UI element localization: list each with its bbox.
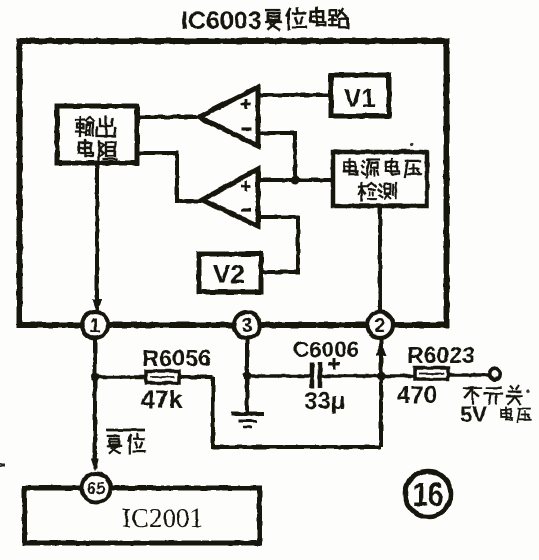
reference V2 <box>199 254 261 292</box>
wire junction2 to R6023 <box>381 374 416 378</box>
junction comp1-minus / comp2-plus <box>291 176 300 185</box>
ground <box>231 414 264 427</box>
svg-text:16: 16 <box>412 475 443 513</box>
svg-text:V1: V1 <box>344 83 376 113</box>
wire pin3 down to ground <box>245 338 249 412</box>
figure number 16 <box>405 471 451 517</box>
label RESET 复位 (active low) <box>106 430 145 453</box>
comparator A1 <box>199 87 258 146</box>
reference V1 <box>331 75 389 116</box>
wire pin2 down through junction2 to bottom rail (with up arrow) <box>376 338 386 447</box>
pin 3 <box>234 312 260 338</box>
resistor R6056 <box>146 371 179 383</box>
speck right of 470 label <box>526 389 529 392</box>
wire comp2 plus input line to detect box <box>258 178 333 182</box>
wire comp1 minus input down to node <box>258 131 295 182</box>
wire capacitor to junction2 <box>322 374 381 378</box>
svg-text:C6006: C6006 <box>293 337 359 362</box>
box: supply voltage detect 电源电压检测 <box>333 152 427 206</box>
svg-text:IC6003: IC6003 <box>181 7 262 35</box>
junction node below pin1 <box>91 373 100 382</box>
IC6003 block outline <box>20 41 447 325</box>
svg-text:R6023: R6023 <box>407 342 475 368</box>
wire detect box down to pin 2 <box>378 206 382 312</box>
title IC6003 reset circuit <box>181 7 348 35</box>
svg-text:5V: 5V <box>460 402 487 427</box>
svg-text:1: 1 <box>89 315 100 337</box>
svg-text:470: 470 <box>397 382 437 409</box>
comparator A2 <box>202 169 258 226</box>
speck left edge <box>0 463 5 467</box>
IC2001 box <box>25 488 260 543</box>
wire output-box lower tap to comp2 output <box>138 151 203 201</box>
speck near detect box <box>410 142 413 145</box>
pin 1 <box>82 312 108 338</box>
wire output-box bottom down to pin 1 (with arrow) <box>92 164 102 313</box>
resistor R6023 <box>415 368 448 379</box>
pin 65 <box>82 474 111 503</box>
wire R6023 to output terminal <box>448 373 489 377</box>
wire R6056 right side down to bottom rail <box>179 377 381 447</box>
wire junction1 to R6056 <box>95 375 147 379</box>
svg-text:IC2001: IC2001 <box>122 503 203 533</box>
svg-text:47k: 47k <box>141 386 183 414</box>
junction node below pin2 <box>377 372 386 381</box>
svg-text:R6056: R6056 <box>142 345 211 371</box>
wire comp2 minus input to V2 <box>258 215 300 272</box>
junction node below pin3 <box>243 372 252 381</box>
label 不开关 5V 电压 <box>460 386 531 427</box>
wire pin1 down to pin 65 (with arrow) <box>91 338 99 471</box>
capacitor C6006 <box>312 358 340 388</box>
wire junction3 to capacitor <box>247 374 310 378</box>
pin 2 <box>367 312 393 338</box>
svg-text:33μ: 33μ <box>304 388 345 415</box>
svg-text:65: 65 <box>87 479 106 498</box>
terminal: non-switched 5V output <box>490 369 501 380</box>
wire comp1 output to output-resistance box <box>138 115 200 119</box>
svg-text:V2: V2 <box>213 259 245 289</box>
svg-text:2: 2 <box>374 315 385 337</box>
box: output resistance 输出电阻 <box>57 106 137 163</box>
svg-text:3: 3 <box>241 315 252 337</box>
wire comp1 plus input to V1 <box>258 93 331 97</box>
